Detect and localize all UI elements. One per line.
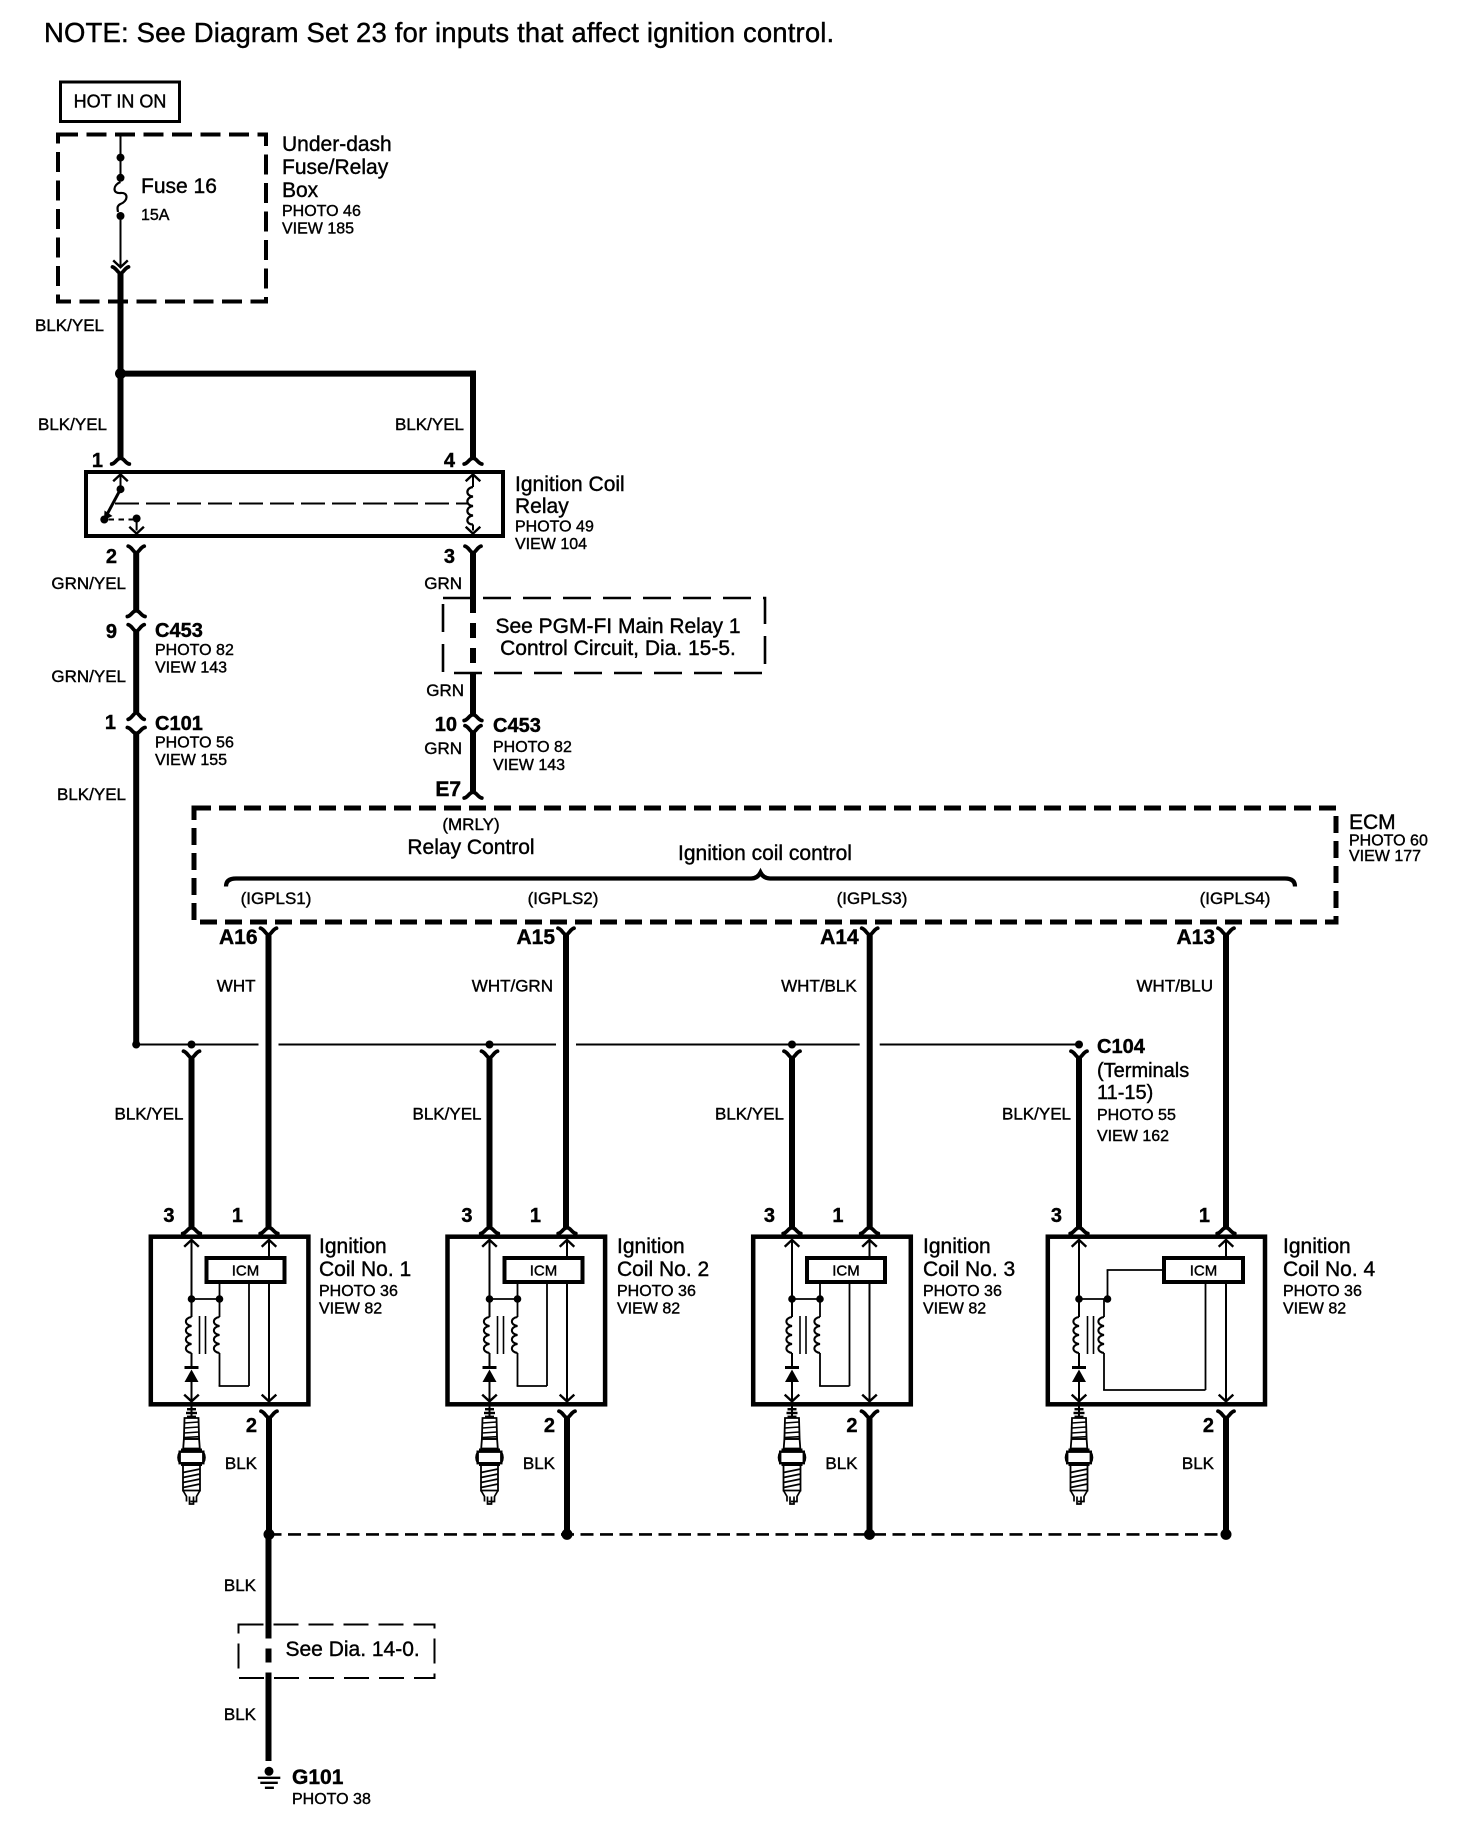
- svg-text:BLK/YEL: BLK/YEL: [35, 316, 104, 335]
- svg-text:VIEW 143: VIEW 143: [155, 660, 227, 677]
- coil 2 core: [497, 1316, 499, 1354]
- relay switch (pins 1-2): [100, 474, 144, 533]
- svg-text:Relay Control: Relay Control: [407, 836, 534, 859]
- relay pin 3 terminal: [465, 546, 481, 553]
- connector C453 pin 9: [106, 611, 234, 677]
- svg-text:VIEW 177: VIEW 177: [1349, 848, 1421, 865]
- coil 2 secondary return to ICM: [517, 1284, 547, 1386]
- svg-text:HOT IN ON: HOT IN ON: [74, 92, 167, 112]
- ground label: [292, 1766, 371, 1808]
- svg-text:NOTE: See Diagram Set 23 for i: NOTE: See Diagram Set 23 for inputs that…: [44, 17, 834, 48]
- coil 3 pin 1 terminal: [861, 1228, 879, 1234]
- ground G101: [258, 1767, 281, 1788]
- node / connector C104 terminal 12: [486, 1041, 494, 1049]
- svg-text:9: 9: [106, 621, 117, 643]
- svg-text:PHOTO 38: PHOTO 38: [292, 1791, 371, 1808]
- wire BLK/YEL C101 down: [133, 733, 139, 1044]
- svg-text:BLK/YEL: BLK/YEL: [413, 1105, 482, 1124]
- ECM pin function labels: [407, 815, 852, 865]
- svg-text:PHOTO 36: PHOTO 36: [617, 1283, 696, 1300]
- coil 4 pin 3 terminal: [1070, 1228, 1088, 1234]
- svg-text:Box: Box: [282, 179, 319, 202]
- svg-text:Ignition: Ignition: [923, 1235, 991, 1258]
- svg-text:BLK: BLK: [225, 1454, 258, 1473]
- svg-text:PHOTO 82: PHOTO 82: [493, 739, 572, 756]
- svg-text:VIEW 82: VIEW 82: [319, 1301, 382, 1318]
- relay pin 2 terminal: [128, 546, 144, 553]
- coil 4 pin 2 terminal: [1218, 1411, 1234, 1418]
- connector C453 pin 10: [435, 714, 572, 774]
- wire BLK coil 4 pin 2: [1223, 1417, 1229, 1534]
- svg-text:1: 1: [232, 1205, 243, 1227]
- svg-text:Coil No. 1: Coil No. 1: [319, 1258, 411, 1281]
- coil 4 internal node link to ICM: [1079, 1270, 1162, 1303]
- spark plug 4: [1066, 1407, 1092, 1505]
- svg-text:PHOTO 36: PHOTO 36: [319, 1283, 398, 1300]
- wire BLK/YEL to coil 1 pin 3: [189, 1058, 195, 1228]
- ECM terminal A15: [558, 928, 574, 935]
- ignition coil no. 4 box: [1048, 1237, 1265, 1405]
- svg-text:VIEW 162: VIEW 162: [1097, 1128, 1169, 1145]
- ECM terminal E7: [464, 792, 482, 798]
- coil 2 secondary winding: [512, 1317, 518, 1353]
- coil 2 pin 1 terminal: [558, 1228, 576, 1234]
- svg-text:Fuse/Relay: Fuse/Relay: [282, 156, 389, 179]
- svg-text:GRN: GRN: [424, 574, 462, 593]
- svg-text:Under-dash: Under-dash: [282, 133, 392, 156]
- svg-text:Ignition Coil: Ignition Coil: [515, 473, 625, 496]
- coil 3 internal node link: [792, 1283, 824, 1303]
- svg-text:VIEW 155: VIEW 155: [155, 752, 227, 769]
- coil 1 label: [319, 1235, 411, 1318]
- coil 1 secondary winding: [214, 1317, 220, 1353]
- svg-text:3: 3: [444, 546, 455, 568]
- svg-text:15A: 15A: [141, 207, 170, 224]
- HOT IN ON box: [61, 82, 180, 122]
- svg-text:3: 3: [461, 1205, 472, 1227]
- svg-text:Coil No. 4: Coil No. 4: [1283, 1258, 1376, 1281]
- coil 1 secondary return to ICM: [219, 1284, 249, 1386]
- coil 3 pin 2 terminal: [862, 1411, 878, 1418]
- svg-text:See Dia. 14-0.: See Dia. 14-0.: [286, 1638, 420, 1661]
- svg-text:PHOTO 56: PHOTO 56: [155, 735, 234, 752]
- svg-text:VIEW 185: VIEW 185: [282, 221, 354, 238]
- svg-text:Ignition: Ignition: [617, 1235, 685, 1258]
- wire WHT/BLK A14 to coil 3 pin 1: [867, 935, 873, 1228]
- see dia 14-0 note box (dashed): [239, 1625, 435, 1679]
- see PGM-FI note box (dashed): [443, 598, 765, 673]
- connector C104 label: [1097, 1036, 1189, 1145]
- wire GRN to C453 pin 10: [470, 673, 476, 715]
- svg-text:G101: G101: [292, 1766, 344, 1789]
- ignition coil no. 3 box: [753, 1237, 911, 1405]
- svg-text:BLK/YEL: BLK/YEL: [715, 1105, 784, 1124]
- coil 1 core: [199, 1316, 201, 1354]
- node / connector C104 terminal 13: [788, 1041, 796, 1049]
- connector C101 pin 1: [105, 712, 234, 769]
- coil 2 internal node link: [490, 1283, 522, 1303]
- fuse output terminal: [113, 267, 129, 274]
- coil 4 primary winding: [1073, 1317, 1079, 1353]
- coil 3 spark output: [785, 1353, 800, 1401]
- splice line BLK/YEL to C104 (thin bus): [136, 1044, 1079, 1046]
- svg-text:BLK: BLK: [224, 1576, 257, 1595]
- relay pin 1 terminal: [112, 458, 130, 464]
- svg-text:ECM: ECM: [1349, 811, 1396, 834]
- svg-text:PHOTO 36: PHOTO 36: [923, 1283, 1002, 1300]
- splice node: [132, 1041, 140, 1049]
- svg-text:ICM: ICM: [832, 1263, 860, 1280]
- spark plug 2: [476, 1407, 502, 1505]
- pin name labels: [241, 889, 1271, 908]
- coil 3 secondary winding: [814, 1317, 820, 1353]
- svg-text:BLK/YEL: BLK/YEL: [38, 415, 107, 434]
- relay label: [515, 473, 625, 553]
- svg-text:1: 1: [92, 450, 103, 472]
- coil 1 spark output: [184, 1353, 199, 1401]
- wire BLK coil 1 pin 2: [266, 1417, 272, 1534]
- coil 4 diode: [1072, 1368, 1086, 1383]
- fuse/relay box label: [282, 133, 392, 238]
- svg-text:2: 2: [1203, 1415, 1214, 1437]
- svg-text:Fuse 16: Fuse 16: [141, 175, 217, 198]
- svg-text:Coil No. 2: Coil No. 2: [617, 1258, 709, 1281]
- wire BLK/YEL from fuse box: [118, 274, 124, 377]
- svg-text:BLK: BLK: [523, 1454, 556, 1473]
- svg-text:GRN/YEL: GRN/YEL: [51, 667, 126, 686]
- svg-text:Ignition: Ignition: [319, 1235, 387, 1258]
- svg-text:WHT/GRN: WHT/GRN: [472, 977, 553, 996]
- coil 4 secondary winding: [1098, 1317, 1104, 1353]
- svg-text:WHT: WHT: [217, 977, 256, 996]
- ground node coil 4: [1221, 1529, 1232, 1540]
- under-dash fuse/relay box (dashed): [58, 135, 266, 302]
- spark plug 1: [178, 1407, 204, 1505]
- wire branch to relay pin 4: [121, 371, 477, 458]
- svg-text:BLK: BLK: [825, 1454, 858, 1473]
- wire WHT/GRN A15 to coil 2 pin 1: [563, 935, 569, 1228]
- svg-text:PHOTO 82: PHOTO 82: [155, 642, 234, 659]
- svg-text:VIEW 82: VIEW 82: [617, 1301, 680, 1318]
- svg-text:(Terminals: (Terminals: [1097, 1060, 1189, 1082]
- wire GRN/YEL C453 to C101: [133, 631, 139, 712]
- brace over ignition coil control pins: [226, 873, 1295, 887]
- wire BLK/YEL to coil 2 pin 3: [487, 1058, 493, 1228]
- relay coil (pins 4-3): [466, 474, 481, 533]
- ground bus (dashed): [269, 1533, 1227, 1536]
- svg-text:ICM: ICM: [232, 1263, 260, 1280]
- coil 1 pin 2 terminal: [261, 1411, 277, 1418]
- coil 2 label: [617, 1235, 709, 1318]
- coil 3 pin 3 terminal: [783, 1228, 801, 1234]
- svg-text:C453: C453: [493, 715, 541, 737]
- node / connector C104 terminal 14: [1075, 1041, 1083, 1049]
- wire BLK note box to G101: [266, 1678, 272, 1761]
- coil 3 label: [923, 1235, 1015, 1318]
- coil 1 primary winding: [186, 1317, 192, 1353]
- svg-text:GRN: GRN: [426, 681, 464, 700]
- ground node coil 3: [864, 1529, 875, 1540]
- svg-text:PHOTO 36: PHOTO 36: [1283, 1283, 1362, 1300]
- coil 2 pin 2 terminal: [559, 1411, 575, 1418]
- coil 1 internal node link: [192, 1283, 224, 1303]
- coil 3 primary feed: [785, 1240, 800, 1303]
- ECM label: [1349, 811, 1428, 865]
- svg-text:A13: A13: [1176, 926, 1215, 949]
- coil 3 ICM signal/ground path: [862, 1240, 877, 1402]
- svg-text:VIEW 143: VIEW 143: [493, 757, 565, 774]
- svg-text:PHOTO 46: PHOTO 46: [282, 203, 361, 220]
- svg-text:BLK: BLK: [1182, 1454, 1215, 1473]
- svg-text:3: 3: [1051, 1205, 1062, 1227]
- svg-text:2: 2: [846, 1415, 857, 1437]
- svg-text:A15: A15: [516, 926, 555, 949]
- svg-text:GRN/YEL: GRN/YEL: [51, 574, 126, 593]
- svg-text:3: 3: [764, 1205, 775, 1227]
- junction node: [115, 368, 126, 379]
- wire BLK inside note box (dashed): [266, 1625, 272, 1679]
- ECM box (dashed): [194, 808, 1336, 922]
- svg-text:Ignition coil control: Ignition coil control: [678, 842, 852, 865]
- coil 4 label: [1283, 1235, 1376, 1318]
- ground node coil 2: [562, 1529, 573, 1540]
- relay pin 4 terminal: [464, 458, 482, 464]
- svg-text:A16: A16: [219, 926, 258, 949]
- svg-text:C453: C453: [155, 620, 203, 642]
- svg-text:C104: C104: [1097, 1036, 1146, 1058]
- svg-text:BLK/YEL: BLK/YEL: [395, 415, 464, 434]
- svg-text:E7: E7: [435, 778, 461, 801]
- ECM terminal A16: [261, 928, 277, 935]
- wire BLK coil 3 pin 2: [867, 1417, 873, 1534]
- coil 3 secondary return to ICM: [819, 1284, 849, 1386]
- ignition coil no. 2 box: [448, 1237, 606, 1405]
- svg-text:Relay: Relay: [515, 495, 569, 518]
- coil 2 pin 3 terminal: [481, 1228, 499, 1234]
- svg-text:11-15): 11-15): [1097, 1082, 1153, 1104]
- svg-text:C101: C101: [155, 713, 203, 735]
- svg-text:Control Circuit, Dia. 15-5.: Control Circuit, Dia. 15-5.: [500, 637, 736, 660]
- svg-text:1: 1: [105, 712, 116, 734]
- svg-text:Coil No. 3: Coil No. 3: [923, 1258, 1015, 1281]
- wire GRN/YEL pin2 to C453: [133, 552, 139, 611]
- svg-text:BLK/YEL: BLK/YEL: [115, 1105, 184, 1124]
- coil 4 primary feed: [1072, 1240, 1087, 1303]
- coil 1 pin 1 terminal: [260, 1228, 278, 1234]
- coil 2 primary feed: [482, 1240, 497, 1303]
- svg-text:PHOTO 60: PHOTO 60: [1349, 833, 1428, 850]
- svg-text:2: 2: [544, 1415, 555, 1437]
- svg-text:WHT/BLK: WHT/BLK: [781, 977, 857, 996]
- coil 4 secondary return to ICM: [1103, 1284, 1205, 1390]
- ignition coil no. 1 box: [151, 1237, 309, 1405]
- coil 1 ICM signal/ground path: [262, 1240, 277, 1402]
- svg-text:(IGPLS2): (IGPLS2): [528, 889, 599, 908]
- svg-text:See PGM-FI Main Relay 1: See PGM-FI Main Relay 1: [495, 615, 740, 638]
- wire to relay pin 1: [118, 374, 124, 458]
- svg-text:GRN: GRN: [424, 739, 462, 758]
- svg-text:1: 1: [832, 1205, 843, 1227]
- wire GRN inside note box (dashed): [470, 598, 476, 673]
- svg-text:10: 10: [435, 714, 457, 736]
- wire GRN pin3 down: [470, 552, 476, 598]
- wire GRN C453 to ECM E7: [470, 732, 476, 792]
- wire WHT/BLU A13 to coil 4 pin 1: [1223, 935, 1229, 1228]
- svg-text:(IGPLS4): (IGPLS4): [1200, 889, 1271, 908]
- coil 1 pin 3 terminal: [183, 1228, 201, 1234]
- svg-text:Ignition: Ignition: [1283, 1235, 1351, 1258]
- svg-text:ICM: ICM: [530, 1263, 558, 1280]
- svg-text:(MRLY): (MRLY): [442, 815, 499, 834]
- coil 4 core: [1087, 1316, 1089, 1354]
- wire BLK coil 2 pin 2: [564, 1417, 570, 1534]
- svg-text:PHOTO 55: PHOTO 55: [1097, 1107, 1176, 1124]
- svg-text:4: 4: [444, 450, 456, 472]
- coil 2 primary winding: [484, 1317, 490, 1353]
- coil 1 diode: [185, 1368, 199, 1383]
- ignition coil relay box: [86, 472, 503, 536]
- svg-text:VIEW 82: VIEW 82: [923, 1301, 986, 1318]
- coil 2 diode: [483, 1368, 497, 1383]
- relay internal link (dashed): [115, 503, 468, 505]
- coil 4 ICM module: [1164, 1258, 1243, 1282]
- coil 2 ICM signal/ground path: [560, 1240, 575, 1402]
- coil 3 primary winding: [786, 1317, 792, 1353]
- coil 4 pin 1 terminal: [1217, 1228, 1235, 1234]
- svg-text:VIEW 104: VIEW 104: [515, 536, 587, 553]
- svg-text:VIEW 82: VIEW 82: [1283, 1301, 1346, 1318]
- svg-text:(IGPLS3): (IGPLS3): [837, 889, 908, 908]
- svg-text:(IGPLS1): (IGPLS1): [241, 889, 312, 908]
- wire WHT A16 to coil 1 pin 1: [266, 935, 272, 1228]
- svg-text:1: 1: [530, 1205, 541, 1227]
- svg-text:2: 2: [246, 1415, 257, 1437]
- svg-text:PHOTO 49: PHOTO 49: [515, 519, 594, 536]
- coil 4 spark output: [1072, 1353, 1087, 1401]
- coil 1 primary feed: [184, 1240, 199, 1303]
- svg-text:2: 2: [106, 546, 117, 568]
- svg-text:ICM: ICM: [1190, 1263, 1218, 1280]
- coil 3 core: [799, 1316, 801, 1354]
- svg-text:BLK: BLK: [224, 1705, 257, 1724]
- spark plug 3: [779, 1407, 805, 1505]
- node / connector C104 terminal 11: [188, 1041, 196, 1049]
- wire BLK/YEL to coil 3 pin 3: [789, 1058, 795, 1228]
- coil 2 spark output: [482, 1353, 497, 1401]
- svg-text:A14: A14: [820, 926, 859, 949]
- wire BLK to ground: [266, 1534, 272, 1624]
- svg-text:WHT/BLU: WHT/BLU: [1137, 977, 1214, 996]
- coil 1 ICM module: [207, 1258, 285, 1282]
- ECM terminal A14: [862, 928, 878, 935]
- coil 3 ICM module: [807, 1258, 885, 1282]
- coil 3 diode: [785, 1368, 799, 1383]
- fuse F16 15A: [113, 135, 217, 268]
- ECM terminal A13: [1218, 928, 1234, 935]
- svg-text:BLK/YEL: BLK/YEL: [1002, 1105, 1071, 1124]
- ground node coil 1: [264, 1529, 275, 1540]
- coil 4 ICM signal/ground path: [1219, 1240, 1234, 1402]
- svg-text:3: 3: [163, 1205, 174, 1227]
- wire BLK/YEL to coil 4 pin 3: [1076, 1058, 1082, 1228]
- coil 2 ICM module: [505, 1258, 583, 1282]
- svg-text:BLK/YEL: BLK/YEL: [57, 785, 126, 804]
- svg-text:1: 1: [1199, 1205, 1210, 1227]
